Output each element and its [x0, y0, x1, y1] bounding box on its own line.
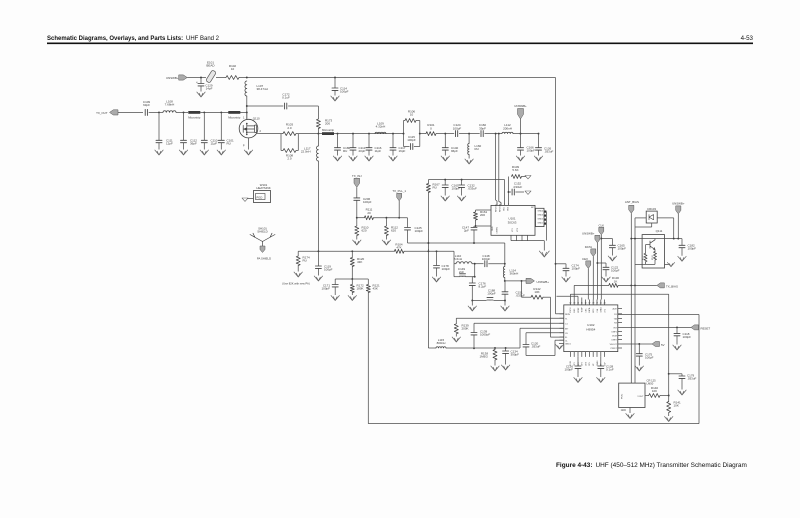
- svg-text:38.47nH: 38.47nH: [257, 87, 268, 91]
- resistor R109: [508, 177, 510, 206]
- svg-text:100pF: 100pF: [683, 335, 692, 339]
- svg-text:96pF: 96pF: [451, 149, 458, 153]
- capacitor C182: [678, 238, 682, 240]
- svg-text:BPO: BPO: [593, 308, 595, 313]
- junction L114 top: [504, 263, 506, 265]
- svg-text:39pF: 39pF: [479, 126, 486, 130]
- svg-text:.033uF: .033uF: [468, 187, 478, 191]
- svg-text:(Use 82K with new PA): (Use 82K with new PA): [282, 281, 310, 285]
- svg-text:19: 19: [596, 302, 598, 304]
- svg-text:DATA: DATA: [585, 245, 592, 249]
- capacitor C101 shunt: [220, 111, 222, 113]
- svg-text:200: 200: [480, 213, 485, 217]
- sensor CR125 LM50 box: [619, 383, 645, 407]
- capacitor C111 shunt: [158, 112, 160, 140]
- svg-text:RU: RU: [433, 186, 437, 190]
- U102 left pins: [560, 313, 564, 315]
- microstrip 3: [322, 132, 334, 135]
- svg-text:GND4: GND4: [537, 211, 543, 213]
- svg-text:Figure 4-43:: Figure 4-43:: [556, 462, 593, 469]
- capacitor C176: [474, 276, 476, 278]
- svg-text:CP4: CP4: [585, 362, 587, 366]
- svg-text:CNTRL: CNTRL: [497, 226, 499, 234]
- svg-text:RFOUT1: RFOUT1: [496, 203, 498, 212]
- node RESET flag: [622, 326, 691, 328]
- svg-text:10K: 10K: [652, 389, 657, 393]
- ground Q110 source: [248, 138, 250, 150]
- junction top rail to L107: [246, 77, 248, 79]
- resistor R110: [356, 218, 358, 226]
- wire RFOUT feeds: [495, 134, 497, 200]
- resistor R173: [317, 106, 319, 119]
- resistor R102: [226, 76, 239, 80]
- svg-text:UHF Band 2: UHF Band 2: [186, 36, 220, 42]
- capacitor C126 shunt: [538, 133, 540, 135]
- capacitor C116 shunt: [368, 133, 370, 135]
- capacitor C147: [475, 225, 477, 227]
- inductor L160 shunt: [468, 133, 470, 135]
- svg-text:2pF: 2pF: [464, 229, 469, 233]
- wire R121 route to U102: [368, 423, 699, 425]
- transistor Q110 MOSFET: [239, 119, 258, 138]
- resistor R111: [357, 217, 365, 219]
- svg-text:FREF: FREF: [578, 307, 580, 313]
- svg-text:100pF: 100pF: [688, 247, 697, 251]
- svg-text:620: 620: [362, 229, 367, 233]
- svg-text:12: 12: [569, 302, 571, 304]
- svg-text:22.0nH: 22.0nH: [301, 150, 311, 154]
- svg-text:16pF: 16pF: [399, 149, 406, 153]
- svg-text:GND: GND: [492, 226, 494, 231]
- svg-text:Microstrip: Microstrip: [228, 115, 241, 119]
- capacitor C122: [596, 262, 598, 264]
- svg-text:RESET: RESET: [701, 326, 711, 330]
- capacitor C132: [461, 179, 463, 181]
- svg-text:PWDT: PWDT: [611, 348, 618, 350]
- capacitor C180 shunt: [337, 133, 339, 135]
- svg-text:100pF: 100pF: [482, 257, 491, 261]
- resistor R112: [385, 217, 387, 219]
- svg-text:UNSWB+: UNSWB+: [672, 202, 685, 206]
- node TX_BIAS flag: [657, 283, 665, 288]
- diode CR103: [646, 211, 657, 223]
- svg-text:VSOUT: VSOUT: [610, 344, 618, 346]
- svg-text:200K: 200K: [462, 327, 469, 331]
- svg-text:20pF: 20pF: [359, 149, 366, 153]
- svg-text:2.0: 2.0: [287, 126, 292, 130]
- microstrip 1: [188, 111, 200, 114]
- svg-text:100pF: 100pF: [415, 229, 424, 233]
- wire U101 vcc rail: [428, 179, 504, 181]
- svg-text:100pF: 100pF: [487, 292, 496, 296]
- svg-text:.033uF: .033uF: [687, 377, 697, 381]
- svg-text:UNSWB+: UNSWB+: [514, 104, 527, 108]
- svg-text:CU: CU: [565, 333, 569, 335]
- node UNSWB+ output flag: [505, 280, 526, 282]
- svg-text:20: 20: [367, 211, 371, 215]
- svg-text:CR103: CR103: [647, 207, 656, 211]
- junction L117 C119: [317, 250, 319, 252]
- U102 top pins: [569, 300, 571, 305]
- wire stub pins: [577, 296, 579, 299]
- capacitor C165: [600, 238, 602, 240]
- capacitor C139: [471, 333, 477, 335]
- svg-text:100pF: 100pF: [527, 149, 536, 153]
- resistor R172: [351, 279, 353, 285]
- resistor R174: [297, 251, 299, 256]
- wire Q111 emitter out: [635, 263, 643, 265]
- svg-text:14: 14: [577, 302, 579, 304]
- capacitor C179: [668, 373, 670, 375]
- svg-text:100pF: 100pF: [453, 126, 462, 130]
- capacitor C129: [200, 78, 202, 84]
- svg-text:TX_OUT: TX_OUT: [96, 111, 108, 115]
- svg-text:UNSWB+: UNSWB+: [166, 76, 179, 80]
- svg-text:DATA: DATA: [588, 307, 591, 312]
- svg-text:4-53: 4-53: [741, 35, 754, 42]
- U102 bottom pins: [569, 352, 571, 357]
- svg-text:RU: RU: [303, 259, 307, 263]
- svg-text:GND3: GND3: [597, 361, 599, 366]
- svg-text:100pF: 100pF: [407, 138, 416, 142]
- svg-text:UHF (450–512 MHz) Transmitter: UHF (450–512 MHz) Transmitter Schematic …: [596, 462, 747, 469]
- capacitor C136: [577, 357, 579, 366]
- svg-text:620: 620: [391, 229, 396, 233]
- svg-text:GND1: GND1: [565, 344, 572, 346]
- svg-text:CP1: CP1: [574, 362, 576, 366]
- svg-text:5.6nH: 5.6nH: [454, 257, 462, 261]
- svg-text:Q110: Q110: [253, 116, 260, 120]
- node TX_PLL_1 flag: [398, 217, 400, 219]
- svg-text:2pF: 2pF: [459, 270, 464, 274]
- resistor R101: [426, 132, 436, 136]
- resistor R141: [668, 396, 670, 402]
- capacitor C120 loop: [526, 332, 564, 334]
- svg-text:TX_BIAS: TX_BIAS: [666, 284, 678, 288]
- svg-text:7.68nH: 7.68nH: [165, 103, 175, 107]
- svg-text:RXTX: RXTX: [570, 307, 572, 313]
- svg-text:Q111: Q111: [656, 229, 663, 233]
- capacitor C134: [505, 347, 507, 349]
- svg-text:100pF: 100pF: [363, 200, 372, 204]
- svg-text:180K: 180K: [357, 287, 364, 291]
- inductor L109: [375, 132, 386, 133]
- svg-text:Microstrip: Microstrip: [322, 128, 335, 132]
- svg-text:100pF: 100pF: [321, 287, 330, 291]
- wire T1 to R139: [456, 317, 564, 319]
- junction TX_INJ node: [356, 217, 358, 219]
- svg-text:UNSWB+: UNSWB+: [537, 280, 550, 284]
- svg-text:AUX: AUX: [613, 308, 618, 311]
- svg-text:RFOUT2: RFOUT2: [500, 203, 502, 212]
- svg-text:VOUT: VOUT: [637, 396, 644, 398]
- svg-text:Microstrip: Microstrip: [188, 115, 201, 119]
- svg-text:10K: 10K: [534, 290, 539, 294]
- svg-text:12pF: 12pF: [166, 142, 173, 146]
- wire rail to RFIN: [555, 78, 557, 314]
- capacitor C175: [638, 343, 640, 345]
- capacitor C110 shunt: [203, 111, 205, 113]
- wire top rail: [187, 77, 206, 79]
- svg-text:CLK: CLK: [598, 223, 604, 227]
- svg-text:47K: 47K: [396, 246, 401, 250]
- wire collector rail: [631, 238, 642, 240]
- capacitor C148 series: [485, 261, 487, 267]
- resistor R130: [609, 283, 618, 287]
- svg-text:43K: 43K: [373, 287, 378, 291]
- svg-text:4.32nH: 4.32nH: [376, 125, 386, 129]
- svg-text:RU: RU: [343, 149, 347, 153]
- ground LM50: [629, 408, 631, 414]
- svg-text:100pF: 100pF: [618, 247, 627, 251]
- capacitor C114: [334, 77, 336, 79]
- ferrite bead E101: [206, 70, 217, 83]
- capacitor C172 feedback: [247, 105, 283, 107]
- svg-text:13: 13: [573, 302, 575, 304]
- svg-text:21: 21: [604, 302, 606, 304]
- header rule: [47, 42, 753, 44]
- svg-text:RU: RU: [475, 147, 479, 151]
- capacitor C113 shunt: [352, 133, 354, 135]
- inductor L112: [502, 132, 513, 133]
- junction to U101 feeds: [495, 133, 497, 135]
- resistor R121: [367, 279, 369, 285]
- svg-text:TX_PLL_1: TX_PLL_1: [392, 189, 406, 193]
- svg-text:HEATSINK: HEATSINK: [256, 186, 270, 190]
- svg-text:63pF: 63pF: [143, 103, 150, 107]
- capacitor C118: [676, 326, 678, 328]
- svg-text:10: 10: [231, 67, 235, 71]
- wire EP to ground: [545, 212, 547, 241]
- svg-text:R128: R128: [652, 255, 654, 260]
- resistor R140: [645, 395, 649, 397]
- capacitor C174: [555, 263, 557, 265]
- svg-text:PA SHIELD: PA SHIELD: [257, 257, 271, 261]
- U102 right pins: [618, 308, 622, 310]
- wire Q110 output: [257, 132, 259, 135]
- svg-text:1MEG: 1MEG: [479, 355, 488, 359]
- svg-text:GND2: GND2: [601, 307, 603, 312]
- wire pin12 temp sense route: [569, 294, 571, 299]
- svg-text:200: 200: [325, 122, 330, 126]
- svg-text:100pF: 100pF: [340, 90, 349, 94]
- capacitor C152: [509, 191, 512, 193]
- svg-text:PAO: PAO: [573, 308, 576, 312]
- svg-text:GND1: GND1: [537, 223, 543, 225]
- junction C176 gnd: [471, 300, 473, 302]
- capacitor C160 series: [481, 131, 483, 137]
- ground Q111: [665, 263, 670, 265]
- svg-text:CP5: CP5: [589, 362, 591, 366]
- resistor R104: [394, 249, 404, 253]
- svg-text:SHIELD: SHIELD: [257, 230, 267, 234]
- node UNSWB+ feed flag: [520, 133, 522, 135]
- capacitor C178: [436, 250, 438, 252]
- svg-text:5V: 5V: [661, 343, 665, 347]
- svg-text:100pF: 100pF: [564, 368, 573, 372]
- svg-text:8.2pF: 8.2pF: [479, 285, 487, 289]
- svg-text:CEX: CEX: [582, 257, 588, 261]
- capacitor C140 shunt: [444, 133, 446, 135]
- svg-text:18: 18: [592, 302, 594, 304]
- op-amp U102 main IC box: [564, 305, 618, 352]
- capacitor C124 series: [456, 131, 458, 137]
- wire bias line: [298, 250, 394, 252]
- svg-text:14pF: 14pF: [206, 87, 213, 91]
- wire to C148: [475, 263, 484, 265]
- inductor L114: [503, 267, 504, 278]
- capacitor C206 series: [354, 198, 360, 200]
- capacitor C128: [600, 357, 602, 366]
- wire LM50 supplies: [634, 285, 636, 383]
- capacitor C112 shunt: [183, 111, 185, 113]
- resistor R127 inside: [644, 253, 647, 261]
- svg-text:ANT_BIAS: ANT_BIAS: [625, 200, 639, 204]
- svg-text:30C63: 30C63: [508, 221, 517, 225]
- microstrip 2: [228, 111, 240, 114]
- svg-text:XTL: XTL: [604, 309, 606, 312]
- svg-text:RU: RU: [227, 142, 231, 146]
- svg-text:.033uF: .033uF: [544, 150, 554, 154]
- svg-text:0.1uF: 0.1uF: [282, 96, 290, 100]
- svg-text:TX_INJ: TX_INJ: [352, 174, 362, 178]
- resistor R128 inside: [654, 252, 657, 261]
- svg-text:100pF: 100pF: [442, 267, 451, 271]
- wire PA line: [298, 133, 318, 135]
- svg-text:10: 10: [410, 113, 414, 117]
- inductor L115: [436, 347, 446, 348]
- resistor R106 capacitor C115 parallel: [403, 121, 405, 134]
- svg-text:R127: R127: [643, 255, 645, 260]
- svg-text:36pF: 36pF: [190, 142, 197, 146]
- resistor R120: [351, 250, 353, 252]
- svg-text:1K: 1K: [614, 279, 618, 283]
- svg-text:RFIN: RFIN: [565, 314, 570, 316]
- svg-text:GND3: GND3: [537, 215, 543, 217]
- capacitor C119: [317, 251, 319, 266]
- svg-text:20: 20: [600, 302, 602, 304]
- svg-text:Schematic Diagrams, Overlays,: Schematic Diagrams, Overlays, and Parts …: [47, 36, 183, 42]
- svg-text:UNSWB+: UNSWB+: [582, 231, 595, 235]
- svg-text:11pF: 11pF: [375, 149, 382, 153]
- wire bias to L115: [427, 249, 429, 251]
- svg-text:11pF: 11pF: [211, 142, 218, 146]
- svg-text:800nH: 800nH: [437, 341, 446, 345]
- svg-text:100pF: 100pF: [611, 269, 620, 273]
- svg-text:UNF1: UNF1: [611, 332, 617, 334]
- svg-text:43K: 43K: [357, 260, 362, 264]
- svg-text:.033uF: .033uF: [513, 185, 523, 189]
- resistor R142: [521, 280, 523, 282]
- svg-text:PCIC: PCIC: [622, 393, 624, 399]
- resistors R103 R108 parallel: [281, 133, 283, 135]
- ground GND1 pin: [559, 342, 561, 345]
- svg-text:100pF: 100pF: [572, 267, 581, 271]
- capacitor C171: [334, 279, 336, 285]
- svg-text:2.0: 2.0: [287, 157, 292, 161]
- svg-text:16: 16: [585, 302, 587, 304]
- svg-text:VLIM: VLIM: [612, 336, 617, 338]
- svg-text:1000pF: 1000pF: [480, 333, 490, 337]
- svg-text:100pF: 100pF: [645, 356, 654, 360]
- svg-text:17: 17: [588, 302, 590, 304]
- resistor R139: [454, 324, 458, 334]
- svg-text:H9954: H9954: [586, 327, 595, 331]
- capacitor C151: [504, 280, 506, 282]
- svg-text:200nH: 200nH: [503, 126, 512, 130]
- junction bias divider: [351, 278, 353, 280]
- svg-text:100pF: 100pF: [324, 268, 333, 272]
- inductor L108: [158, 111, 160, 113]
- inductor L117: [317, 134, 319, 146]
- capacitor C166 shunt: [520, 134, 522, 148]
- capacitor C125 series: [407, 218, 409, 228]
- svg-text:GND2: GND2: [537, 219, 543, 221]
- U101 bottom pins to ground: [510, 235, 512, 240]
- svg-text:15: 15: [581, 302, 583, 304]
- svg-text:5.6K: 5.6K: [512, 168, 518, 172]
- svg-text:PGD: PGD: [257, 195, 263, 199]
- node 5V flag: [622, 343, 652, 345]
- resistor R161 loop: [476, 209, 492, 211]
- svg-text:390pF: 390pF: [511, 353, 520, 357]
- wire TX_BIAS line: [574, 284, 609, 286]
- svg-text:360nH: 360nH: [510, 272, 519, 276]
- svg-text:UNF2: UNF2: [611, 340, 617, 342]
- capacitor C109 series: [145, 109, 147, 115]
- svg-text:TEMP: TEMP: [582, 307, 584, 313]
- svg-text:CP3: CP3: [582, 362, 584, 366]
- capacitor C161: [444, 179, 446, 181]
- svg-text:BEAD: BEAD: [206, 64, 215, 68]
- svg-text:10K: 10K: [674, 404, 679, 408]
- resistor R138: [494, 347, 496, 349]
- pad EP block: [536, 208, 545, 226]
- inductor L110 capacitor C149 parallel: [454, 263, 456, 265]
- capacitor C188 series: [472, 300, 486, 302]
- resistor R167: [427, 180, 429, 184]
- capacitor C117 shunt: [392, 133, 394, 135]
- wire C1 to C139: [474, 322, 564, 324]
- svg-text:.033uF: .033uF: [531, 345, 541, 349]
- op-amp U101 buffer IC box: [491, 205, 535, 235]
- transistor Q111 glyph: [650, 239, 655, 252]
- transistor Q111 block: [642, 235, 664, 268]
- inductor L107: [245, 81, 247, 96]
- svg-text:0.1uF: 0.1uF: [606, 368, 614, 372]
- junction R167 bias: [427, 250, 429, 252]
- svg-text:GND: GND: [621, 409, 627, 412]
